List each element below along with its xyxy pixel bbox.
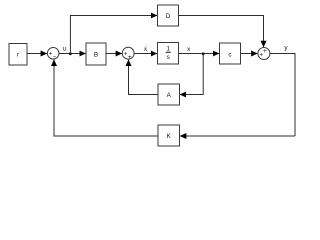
block 1/s integrator bbox=[158, 43, 179, 65]
svg-text:r: r bbox=[17, 52, 19, 59]
summing junction S3 bbox=[258, 48, 270, 60]
junction dot at x bbox=[202, 52, 205, 55]
block r (input) bbox=[9, 44, 27, 66]
junction dot at u bbox=[69, 52, 72, 55]
summing junction S1 bbox=[47, 48, 59, 61]
svg-text:x: x bbox=[187, 46, 191, 53]
wire B to sum S2 bbox=[106, 53, 122, 55]
block D bbox=[158, 5, 179, 26]
block A bbox=[158, 84, 180, 105]
wire C to sum S3 bbox=[241, 53, 258, 55]
wire S2 to integrator bbox=[134, 53, 157, 55]
svg-text:+: + bbox=[263, 48, 267, 55]
wire integrator to block C bbox=[179, 53, 220, 55]
wire r to sum S1 bbox=[27, 53, 47, 55]
wire D to sum S3 top bbox=[179, 16, 264, 47]
wire x junction down to block A bbox=[180, 54, 203, 95]
svg-text:ẋ: ẋ bbox=[144, 46, 148, 53]
svg-text:B: B bbox=[94, 52, 98, 59]
svg-text:1: 1 bbox=[166, 45, 170, 52]
wire u junction up to top rail bbox=[70, 16, 157, 54]
summing junction S2 bbox=[122, 47, 134, 61]
wire S1 to block B bbox=[59, 53, 86, 55]
svg-text:y: y bbox=[284, 45, 288, 52]
svg-text:−: − bbox=[52, 54, 56, 61]
wire A to sum S2 bottom bbox=[129, 60, 159, 95]
wire right side to block K bbox=[180, 135, 295, 137]
block K bbox=[158, 125, 180, 146]
wire K to sum S1 bottom bbox=[54, 60, 158, 136]
svg-text:s: s bbox=[167, 54, 170, 61]
svg-text:D: D bbox=[166, 13, 171, 20]
wire S3 to y output and down right side bbox=[270, 54, 295, 137]
block B bbox=[86, 43, 106, 65]
svg-text:u: u bbox=[63, 46, 67, 53]
svg-text:c: c bbox=[228, 52, 231, 59]
block C bbox=[220, 43, 241, 64]
